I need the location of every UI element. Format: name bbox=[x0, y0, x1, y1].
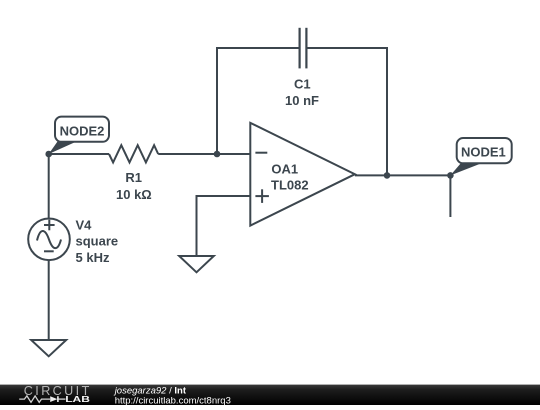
wire: feedback right vertical to output bbox=[386, 47, 388, 175]
wire: non-inverting input to ground bbox=[197, 196, 251, 256]
svg-text:http://circuitlab.com/ct8nrq3: http://circuitlab.com/ct8nrq3 bbox=[115, 395, 231, 405]
node NODE1 label bbox=[450, 138, 511, 175]
svg-text:NODE1: NODE1 bbox=[461, 145, 506, 160]
footer bar bbox=[0, 385, 540, 405]
wire: NODE2 down to V4 bbox=[48, 154, 50, 219]
op-amp non-inverting pin mark bbox=[255, 189, 269, 203]
wire: C1 left lead (top horizontal) bbox=[217, 47, 300, 49]
wire: C1 right lead (top horizontal) bbox=[307, 47, 388, 49]
svg-text:square: square bbox=[76, 234, 119, 249]
svg-text:R1: R1 bbox=[125, 170, 142, 185]
CircuitLab logo bbox=[19, 384, 91, 405]
op-amp OA1 bbox=[250, 123, 355, 226]
svg-text:10 nF: 10 nF bbox=[285, 93, 319, 108]
svg-text:LAB: LAB bbox=[65, 396, 90, 405]
svg-text:C1: C1 bbox=[294, 77, 311, 92]
junction dot at inverting input bbox=[214, 151, 221, 158]
voltage source V4 bbox=[28, 219, 70, 261]
svg-text:OA1: OA1 bbox=[271, 161, 298, 176]
node NODE2 label bbox=[49, 117, 109, 154]
junction dot at NODE1 bbox=[447, 172, 454, 179]
ground (V4) bbox=[31, 340, 66, 356]
ground (op-amp + input) bbox=[179, 256, 214, 272]
wire: R1 to op-amp inverting input bbox=[158, 153, 250, 155]
svg-text:5 kHz: 5 kHz bbox=[76, 250, 110, 265]
wire: NODE1 stub down bbox=[449, 175, 451, 217]
wire: feedback left vertical to inverting input bbox=[216, 47, 218, 154]
junction dot at output/feedback bbox=[384, 172, 391, 179]
capacitor C1 bbox=[300, 28, 307, 69]
svg-text:10 kΩ: 10 kΩ bbox=[116, 187, 152, 202]
op-amp inverting pin mark bbox=[255, 152, 267, 154]
junction dot at NODE2 bbox=[45, 151, 52, 158]
resistor R1 bbox=[109, 145, 158, 162]
svg-text:TL082: TL082 bbox=[271, 177, 309, 192]
wire: NODE2 to R1 bbox=[49, 153, 109, 155]
svg-text:NODE2: NODE2 bbox=[60, 123, 105, 138]
wire: V4 to ground bbox=[48, 260, 50, 340]
svg-text:V4: V4 bbox=[76, 217, 93, 232]
wire: op-amp output to NODE1 bbox=[355, 174, 451, 176]
